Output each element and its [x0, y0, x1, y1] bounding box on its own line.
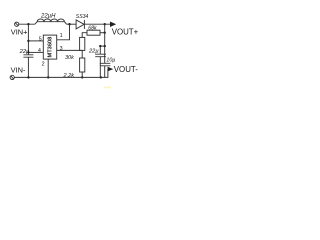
svg-text:30k: 30k: [65, 55, 74, 61]
wire FB node vertical: [81, 50, 83, 58]
svg-text:10µ: 10µ: [106, 58, 115, 64]
wire pin3 FB: [57, 49, 82, 51]
wire rail to SW node: [67, 23, 77, 25]
diode D1 SS34: [76, 20, 84, 29]
node SW junction: [68, 23, 70, 25]
node column A mid: [99, 45, 101, 47]
svg-text:5: 5: [39, 36, 42, 42]
node pin4 junction: [27, 51, 29, 53]
svg-text:SS34: SS34: [76, 14, 89, 20]
inductor L1 22uH: [35, 22, 67, 25]
wire pin2 stub: [47, 59, 49, 77]
svg-text:VIN+: VIN+: [11, 27, 28, 36]
capacitor C2 22u output: [95, 54, 106, 57]
terminal VIN+: [15, 22, 19, 26]
capacitor C1 22u input: [23, 55, 33, 57]
svg-text:4: 4: [38, 48, 41, 54]
arrow VOUT+: [110, 22, 116, 28]
resistor R3 2.2k: [80, 58, 85, 72]
IC U1 MT3608 body: [43, 35, 56, 59]
wire 68k left lead: [82, 33, 87, 38]
wire rail diode to arrow: [84, 23, 110, 25]
terminal VIN-: [10, 75, 14, 79]
wire column B out: [104, 24, 106, 77]
node bridge B: [104, 45, 106, 47]
svg-text:22µ: 22µ: [19, 49, 30, 55]
wire left column: [27, 24, 29, 77]
node pin2 ground junction: [47, 76, 49, 78]
ground rail wire: [14, 69, 108, 77]
node input junction: [27, 23, 29, 25]
wire top rail left: [19, 23, 35, 25]
svg-text:68k: 68k: [88, 26, 97, 32]
node pin5 junction: [27, 40, 29, 42]
svg-text:3: 3: [60, 46, 63, 52]
svg-text:1: 1: [60, 33, 63, 39]
node column A ground: [100, 76, 102, 78]
svg-text:VOUT+: VOUT+: [112, 27, 139, 36]
wire pin5 stub: [28, 40, 43, 42]
node 68k column junction: [104, 32, 106, 34]
svg-text:VOUT-: VOUT-: [114, 65, 138, 74]
wire bridge: [100, 45, 104, 47]
capacitor C3 10u output: [100, 63, 111, 66]
stain yellow: [104, 87, 111, 89]
node 2.2k ground junction: [81, 76, 83, 78]
svg-text:22µ: 22µ: [88, 49, 99, 55]
wire column A out: [99, 46, 101, 77]
svg-text:2: 2: [42, 62, 45, 68]
wire pin1 to SW: [57, 24, 70, 40]
svg-text:22µH: 22µH: [40, 13, 56, 19]
wire 68k right lead: [100, 32, 105, 34]
wire 2.2k lead to ground: [81, 72, 83, 77]
svg-text:2.2k: 2.2k: [63, 73, 76, 79]
arrow VOUT-: [108, 67, 114, 72]
resistor R1 68k: [87, 30, 100, 35]
svg-text:MT3608: MT3608: [48, 37, 54, 58]
svg-text:VIN-: VIN-: [11, 66, 26, 75]
wire pin4 stub: [28, 51, 43, 53]
resistor R2 30k: [80, 37, 85, 50]
node out B: [104, 23, 106, 25]
node input cap ground: [27, 76, 29, 78]
